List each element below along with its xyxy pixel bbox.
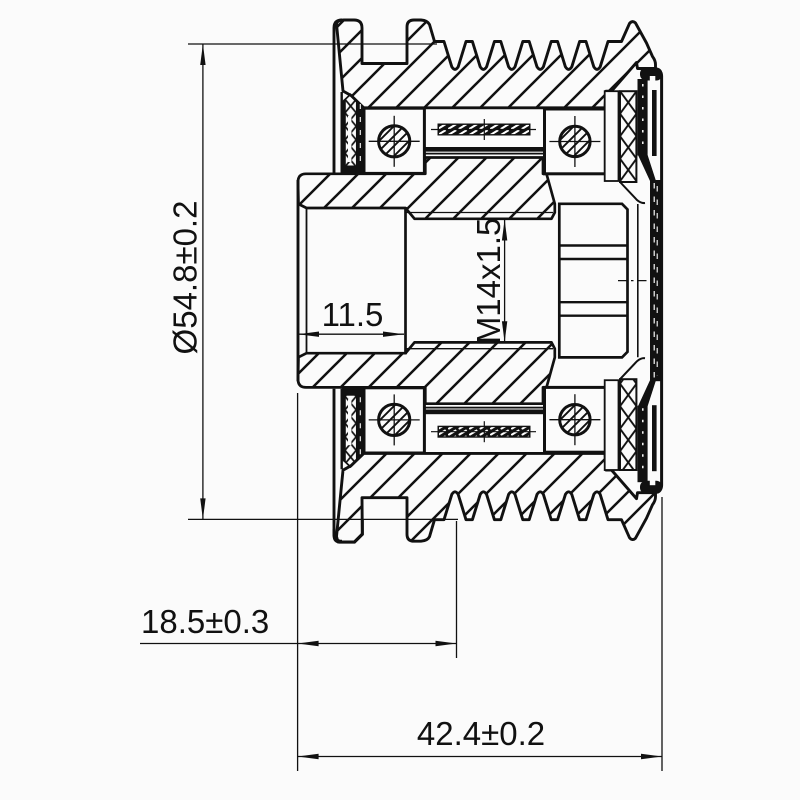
left seal top metal insert <box>352 95 364 171</box>
cap wall texture dots <box>642 84 644 153</box>
left seal bottom base <box>342 388 364 396</box>
thread crest line top (thin) <box>407 212 554 214</box>
right seal pocket top edge bottom <box>620 358 645 379</box>
cap rolled top bend <box>640 68 662 81</box>
cap wall section upper band <box>638 79 648 156</box>
left seal top lip slit <box>348 116 351 162</box>
spring centerline top <box>431 129 536 131</box>
svg-text:M14x1.5: M14x1.5 <box>470 218 507 345</box>
cap wall section lower band <box>638 406 648 483</box>
right seal bottom (cross-hatched) <box>620 379 636 470</box>
dim Ø54.8±0.2 extension line bottom <box>188 518 458 520</box>
socket counterbore face line <box>306 209 308 353</box>
sleeve groove lines <box>560 244 627 246</box>
dim 18.5±0.3 line <box>140 643 457 645</box>
seal pocket left wall top <box>341 92 343 173</box>
hub outline top <box>298 158 555 219</box>
bottom flange lip1 outer corner <box>334 520 362 543</box>
cap wall section second band top <box>652 90 657 156</box>
dim 18.5±0.3 extension line right <box>456 521 458 658</box>
cap wall middle column <box>650 180 663 381</box>
left seal bottom metal insert <box>352 390 364 466</box>
dim 11.5 line <box>298 333 404 335</box>
dim Ø54.8±0.2 extension line top <box>188 43 437 45</box>
cap inner cone line <box>637 204 639 357</box>
hub section (top band, hatched) <box>298 158 555 219</box>
clutch spring section top <box>438 124 531 136</box>
left seal top (cross-hatched) <box>343 94 357 171</box>
cap outer edge <box>653 69 662 493</box>
svg-text:18.5±0.3: 18.5±0.3 <box>141 603 269 640</box>
cap rolled bottom bend <box>640 481 662 494</box>
bearing bottom-right ball <box>560 405 590 435</box>
pulley rim outline top <box>337 20 656 108</box>
spring centerline bottom <box>431 431 536 433</box>
bearing top-left outer block <box>364 108 424 173</box>
bearing bottom-left outer block <box>364 388 424 453</box>
left seal top base <box>342 166 364 174</box>
dim Ø54.8±0.2 line <box>202 44 204 519</box>
one-way clutch race band bottom <box>425 407 543 415</box>
dim M14x1.5 line <box>504 220 506 343</box>
hub section (bottom band, hatched) <box>298 342 555 403</box>
hub left face line <box>297 180 300 381</box>
bearing bottom-right centerlines <box>549 419 600 421</box>
left seal bottom lip slit <box>348 399 351 445</box>
cap wall section second band bottom <box>652 405 657 471</box>
right spacer ring bottom <box>605 380 619 470</box>
one-way clutch race band top <box>425 147 543 155</box>
right spacer ring top <box>605 91 619 181</box>
bearing bottom-right outer block <box>545 387 606 452</box>
shaft sleeve body <box>559 204 627 358</box>
dim 42.4±0.2 extension line right <box>661 497 663 771</box>
clutch spring section bottom <box>438 426 531 438</box>
pulley left flange outer edge <box>334 20 342 173</box>
hub outline bottom <box>298 342 555 403</box>
pulley rim outline bottom <box>337 453 656 542</box>
cap wall bend transition top <box>638 155 656 181</box>
left seal bottom (cross-hatched) <box>343 390 357 467</box>
axis centerline dashes right <box>618 280 652 282</box>
dim 42.4±0.2 line <box>298 756 662 758</box>
svg-text:42.4±0.2: 42.4±0.2 <box>417 715 545 752</box>
bearing top-left ball <box>379 126 410 157</box>
bearing top-left centerlines <box>369 140 420 142</box>
socket bottom wall <box>404 207 407 354</box>
svg-text:11.5: 11.5 <box>322 296 384 333</box>
pulley rim section (top half, hatched) <box>337 20 656 108</box>
seal pocket left wall bottom <box>341 389 343 470</box>
thread crest line bottom (thin) <box>407 348 554 350</box>
svg-text:Ø54.8±0.2: Ø54.8±0.2 <box>167 201 204 355</box>
bearing bottom-left centerlines <box>369 419 420 421</box>
bearing bottom-left ball <box>379 404 410 435</box>
dim 18.5±0.3 extension line left <box>297 393 299 771</box>
cap wall bend transition bottom <box>638 380 656 406</box>
bearing top-right ball <box>560 126 590 156</box>
right seal pocket bottom edge top <box>620 182 645 203</box>
pulley rim section (bottom half, hatched) <box>337 453 656 542</box>
bearing top-right centerlines <box>549 141 600 143</box>
right seal top (cross-hatched) <box>620 91 636 182</box>
bearing top-right outer block <box>545 109 606 174</box>
